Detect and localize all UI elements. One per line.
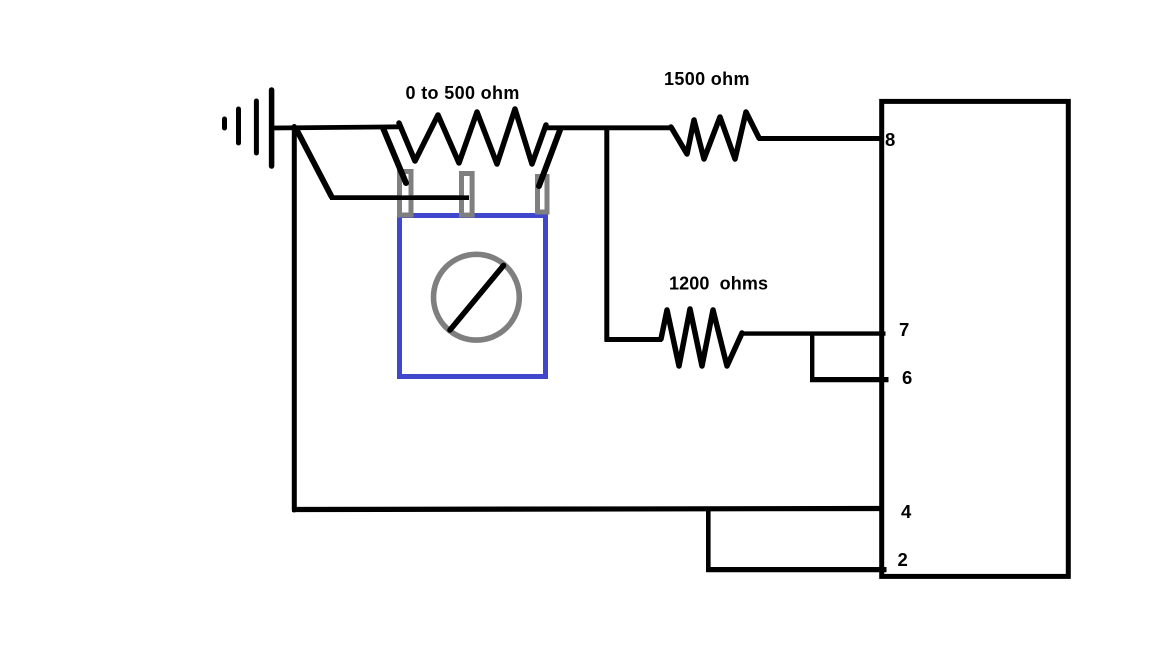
svg-text:8: 8 bbox=[885, 129, 895, 150]
svg-text:7: 7 bbox=[899, 319, 909, 340]
wire battery to potentiometer bbox=[272, 127, 401, 128]
wire to pin 6 bbox=[810, 377, 889, 382]
svg-text:1200 ohms: 1200 ohms bbox=[669, 274, 768, 294]
meter M1 dial circle bbox=[434, 254, 520, 340]
wire over left terminal to middle terminal bbox=[330, 195, 469, 200]
potentiometer left terminal connector bbox=[383, 128, 406, 183]
terminal right of potentiometer bbox=[538, 177, 548, 213]
wire wiper diagonal bbox=[296, 129, 332, 197]
wire resistor R3 to pin 7 bbox=[741, 331, 886, 335]
battery B1 bbox=[225, 90, 272, 166]
IC U1 box bbox=[882, 101, 1069, 576]
wire left vertical bbox=[292, 127, 297, 511]
wire to resistor R3 bbox=[605, 337, 663, 342]
wire bottom to pin 4 bbox=[292, 509, 884, 510]
svg-text:6: 6 bbox=[902, 367, 912, 388]
svg-text:0 to 500 ohm: 0 to 500 ohm bbox=[406, 83, 520, 103]
svg-text:1500 ohm: 1500 ohm bbox=[664, 69, 750, 89]
wire potentiometer to resistor R2 bbox=[544, 125, 672, 130]
wire wiper horizontal bbox=[330, 195, 469, 200]
meter M1 needle bbox=[450, 266, 504, 331]
potentiometer right terminal connector bbox=[539, 130, 560, 186]
wire stub vertical pin 7 to pin 6 bbox=[810, 333, 814, 380]
wire resistor R2 to pin 8 bbox=[758, 136, 884, 141]
resistor R3 1200 ohms zigzag bbox=[661, 309, 742, 366]
meter M1 body bbox=[400, 216, 546, 377]
terminal middle wiper bbox=[462, 174, 473, 216]
potentiometer R1 zigzag bbox=[399, 109, 546, 164]
wire stub vertical to pin 2 bbox=[706, 508, 711, 571]
svg-text:4: 4 bbox=[901, 501, 912, 522]
svg-text:2: 2 bbox=[898, 549, 908, 570]
wire to pin 2 bbox=[706, 567, 887, 572]
resistor R2 1500 ohm zigzag bbox=[671, 112, 759, 159]
wire vertical to resistor R3 bbox=[604, 128, 609, 341]
terminal left of potentiometer bbox=[400, 172, 412, 216]
